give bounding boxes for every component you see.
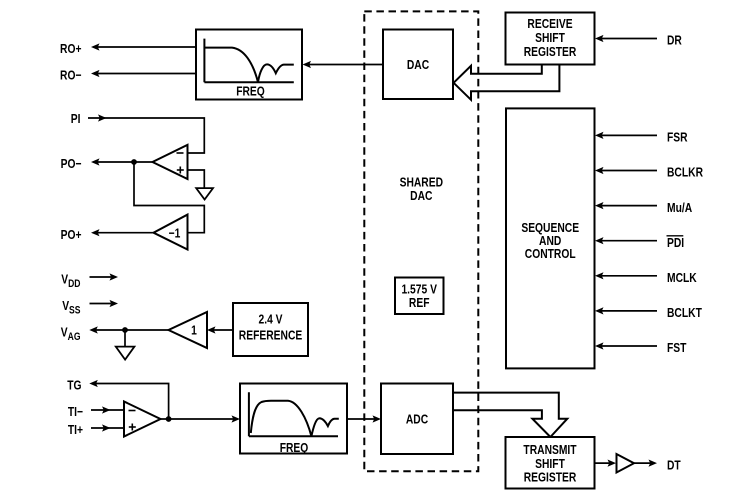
inverting amplifier U3 (gain -1): [154, 215, 188, 250]
wire reference to buffer: [207, 326, 233, 333]
buffer amplifier U4 (gain 1): [169, 312, 208, 348]
svg-text:2.4 V: 2.4 V: [258, 311, 282, 327]
ground symbol at VAG: [116, 347, 135, 360]
wire PO- output: [91, 158, 153, 165]
svg-text:REGISTER: REGISTER: [524, 469, 577, 485]
wire PI to op-amp inverting input: [88, 114, 204, 153]
block ADC U6: [381, 384, 453, 455]
wire Mu/A input: [595, 202, 657, 209]
svg-text:ADC: ADC: [406, 411, 429, 427]
wire TI+ input: [91, 424, 124, 431]
svg-text:TG: TG: [67, 377, 81, 393]
wire transmit filter to ADC: [347, 415, 381, 422]
svg-text:FST: FST: [667, 340, 687, 356]
svg-text:DT: DT: [667, 457, 681, 473]
svg-text:DAC: DAC: [407, 57, 430, 73]
wire TG from transmit op-amp output: [89, 380, 168, 419]
wire TI- input: [91, 406, 124, 413]
svg-text:MCLK: MCLK: [667, 270, 697, 286]
svg-text:FSR: FSR: [667, 129, 688, 145]
block 2.4 V REFERENCE: [233, 303, 308, 356]
svg-text:PI: PI: [71, 111, 81, 127]
wire non-inverting input to ground: [188, 170, 205, 188]
wire feedback from PO- node to inverter input: [134, 162, 204, 233]
block DAC U1: [383, 30, 453, 100]
pin label PDI with overline: [667, 235, 685, 251]
wire DR input: [595, 35, 657, 42]
ground symbol at op-amp U2: [196, 188, 213, 199]
wire DT output: [634, 460, 657, 467]
svg-text:BCLKT: BCLKT: [667, 305, 703, 321]
op-amp U2 (power amplifier, left-pointing): [153, 145, 188, 179]
op-amp U5 (transmit input amplifier, right-pointing): [124, 402, 161, 437]
svg-text:REF: REF: [409, 295, 430, 311]
output buffer U7: [617, 454, 635, 473]
dashed boundary box (shared DAC section): [364, 11, 478, 471]
hollow bus arrow from ADC to transmit shift register: [453, 393, 567, 437]
svg-text:REGISTER: REGISTER: [524, 44, 577, 60]
wire PO+ output: [91, 229, 154, 236]
wire DAC to FREQ filter: [303, 61, 384, 68]
wire VAG output: [89, 326, 168, 333]
wire op-amp to transmit filter: [161, 415, 241, 422]
arrow VDD supply: [90, 273, 119, 280]
block FREQ (receive low-pass filter): [196, 30, 302, 100]
wire BCLKT input: [595, 307, 657, 314]
wire node to ground: [124, 330, 126, 347]
wire BCLKR input: [595, 167, 657, 174]
svg-text:Mu/A: Mu/A: [667, 200, 693, 216]
wire PDI input: [595, 237, 657, 244]
svg-text:DAC: DAC: [410, 188, 433, 204]
svg-text:FREQ: FREQ: [236, 83, 265, 99]
block TRANSMIT SHIFT REGISTER: [506, 437, 595, 489]
wire MCLK input: [595, 272, 657, 279]
svg-text:RO+: RO+: [60, 41, 82, 57]
svg-text:−1: −1: [169, 225, 181, 241]
arrow VSS supply: [90, 300, 119, 307]
block RECEIVE SHIFT REGISTER: [506, 13, 595, 65]
node junction on VAG line: [122, 327, 128, 333]
svg-text:1: 1: [191, 322, 197, 338]
node junction on PO- line: [131, 159, 137, 165]
svg-text:REFERENCE: REFERENCE: [239, 327, 303, 343]
wire RO+ output: [91, 43, 196, 50]
label SHARED DAC: [400, 174, 444, 203]
svg-text:TI−: TI−: [68, 404, 83, 420]
wire RO- output: [91, 70, 196, 77]
block SEQUENCE AND CONTROL: [506, 108, 595, 368]
wire transmit shift register to output buffer: [595, 460, 617, 467]
svg-text:RO−: RO−: [60, 67, 82, 83]
svg-text:PDI: PDI: [667, 235, 684, 251]
hollow bus arrow from receive shift register to DAC: [454, 65, 560, 100]
node junction at op-amp output: [166, 416, 172, 422]
svg-text:PO+: PO+: [61, 227, 82, 243]
wire FST input: [595, 342, 657, 349]
receive filter response curve: [204, 39, 293, 83]
wire FSR input: [595, 132, 657, 139]
svg-text:FREQ: FREQ: [280, 440, 309, 456]
block FREQ (transmit band-pass filter): [240, 384, 347, 456]
svg-text:PO−: PO−: [61, 156, 82, 172]
svg-text:BCLKR: BCLKR: [667, 164, 703, 180]
transmit filter response curve: [249, 392, 339, 436]
svg-text:DR: DR: [667, 32, 682, 48]
svg-text:CONTROL: CONTROL: [525, 246, 576, 262]
block 1.575 V REF: [395, 278, 444, 315]
svg-text:TI+: TI+: [68, 422, 83, 438]
